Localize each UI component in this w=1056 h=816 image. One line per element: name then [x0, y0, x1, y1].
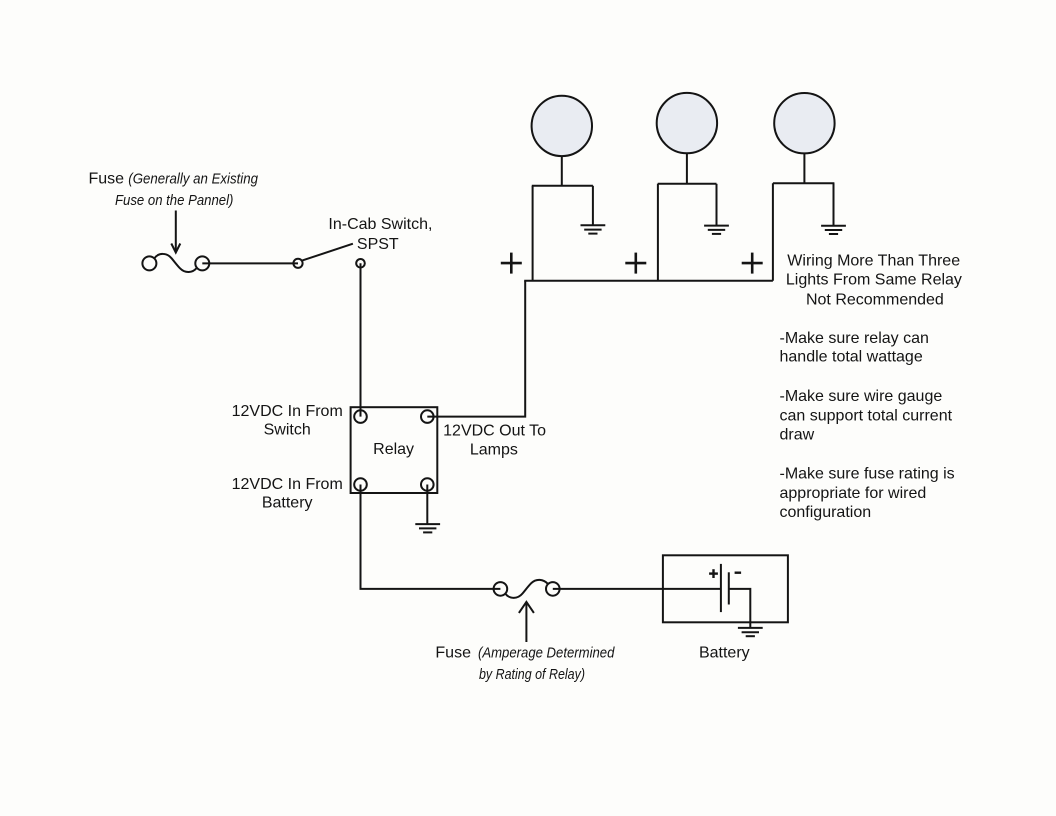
lamp L3 [773, 93, 835, 183]
svg-text:Battery: Battery [262, 494, 313, 511]
wire lamp L1 to bus [532, 186, 534, 281]
polarity + lamp L3 [742, 253, 763, 274]
svg-text:Battery: Battery [699, 644, 750, 661]
fuse F1 [142, 254, 209, 272]
wire lamp bus [524, 280, 773, 282]
label: In-Cab Switch, SPST [328, 216, 432, 253]
svg-text:-Make sure relay can: -Make sure relay can [780, 330, 929, 347]
lamp L1 [532, 96, 593, 186]
ground (lamp L2) [704, 226, 729, 234]
svg-text:Relay: Relay [373, 441, 414, 458]
polarity + battery [709, 569, 718, 578]
label: 12VDC Out To Lamps [443, 422, 546, 458]
svg-text:SPST: SPST [357, 236, 399, 253]
note: wiring recommendation [780, 253, 962, 522]
svg-text:Fuse on the Pannel): Fuse on the Pannel) [115, 193, 233, 209]
switch S1 [293, 244, 364, 268]
wire switch S1 to relay pin 1 [360, 263, 362, 416]
svg-text:appropriate for wired: appropriate for wired [780, 485, 927, 502]
wire lamp L3 to ground [833, 183, 835, 225]
label: 12VDC In From Switch [232, 403, 343, 439]
svg-text:by Rating of Relay): by Rating of Relay) [479, 667, 585, 683]
battery B1 [663, 555, 788, 622]
wire fuse F1 to switch S1 [202, 262, 298, 264]
svg-text:Fuse: Fuse [89, 171, 125, 188]
wire lamp L2 to ground [716, 184, 718, 226]
svg-text:Lamps: Lamps [470, 441, 518, 458]
ground (battery B1) [738, 628, 763, 636]
svg-text:(Generally an Existing: (Generally an Existing [128, 172, 258, 188]
wire fuse F2 to battery B1 [553, 588, 721, 590]
polarity - battery [735, 572, 742, 574]
svg-text:-Make sure wire gauge: -Make sure wire gauge [780, 388, 943, 405]
svg-text:can support total current: can support total current [780, 408, 953, 425]
wire relay pin 2 to lamp bus riser [427, 281, 525, 417]
svg-text:12VDC Out To: 12VDC Out To [443, 422, 546, 439]
wire relay pin 3 to bottom fuse F2 [361, 485, 501, 589]
polarity + lamp L2 [625, 253, 646, 274]
svg-text:Switch: Switch [264, 421, 311, 438]
svg-text:draw: draw [780, 427, 815, 444]
label: 12VDC In From Battery [232, 476, 343, 512]
svg-text:Fuse: Fuse [435, 644, 471, 661]
fuse F2 [494, 580, 560, 598]
svg-text:-Make sure fuse rating is: -Make sure fuse rating is [780, 466, 955, 483]
svg-text:Not Recommended: Not Recommended [806, 292, 944, 309]
ground (lamp L1) [581, 225, 606, 233]
wire relay pin 4 to ground [426, 485, 428, 525]
svg-text:configuration: configuration [780, 504, 872, 521]
wire battery to ground [729, 589, 751, 628]
polarity + lamp L1 [501, 253, 522, 274]
svg-text:In-Cab Switch,: In-Cab Switch, [328, 216, 432, 233]
arrow to fuse F2 [519, 602, 534, 642]
label: Fuse (Generally an Existing Fuse on the Pannel) [89, 171, 259, 209]
svg-text:handle total wattage: handle total wattage [780, 349, 923, 366]
lamp L2 [657, 93, 717, 184]
ground (lamp L3) [821, 226, 846, 234]
svg-text:Wiring More Than Three: Wiring More Than Three [787, 253, 960, 270]
label: Fuse (Amperage Determined by Rating of Relay) [435, 644, 615, 683]
wire lamp L2 to bus [657, 184, 659, 281]
svg-text:Lights From Same Relay: Lights From Same Relay [786, 272, 962, 289]
wire lamp L3 to bus [772, 183, 774, 280]
svg-text:12VDC In From: 12VDC In From [232, 403, 343, 420]
relay K1 [351, 407, 438, 493]
svg-text:(Amperage Determined: (Amperage Determined [478, 645, 615, 661]
svg-text:12VDC In From: 12VDC In From [232, 476, 343, 493]
arrow to fuse F1 [171, 211, 180, 253]
wire lamp L1 to ground [592, 186, 594, 226]
ground (relay K1) [415, 524, 440, 532]
